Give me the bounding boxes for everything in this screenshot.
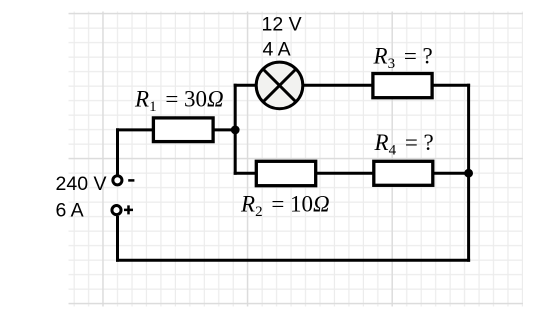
wire R4 to right rail: [433, 172, 470, 175]
resistor R2: [256, 161, 315, 185]
wire bottom return: [116, 259, 470, 262]
wire branch riser: lamp level down to R2 level: [234, 84, 237, 175]
resistor R3: [373, 74, 432, 98]
terminal negative (open circle): [113, 176, 122, 185]
junction node dot at R4 / right rail: [464, 169, 473, 178]
plus sign: [124, 205, 133, 214]
resistor R1: [153, 118, 213, 142]
terminal positive (open circle): [112, 206, 121, 215]
minus sign: [128, 179, 134, 182]
wire right rail: R3 level down to bottom wire: [467, 84, 470, 262]
wire R1 to junction: [213, 128, 237, 131]
svg-text:R2 = 10Ω: R2 = 10Ω: [240, 192, 330, 221]
svg-text:R4 = ?: R4 = ?: [374, 130, 434, 159]
wire left rail top: from top-left corner down to negative terminal: [116, 128, 119, 174]
lamp (12 V, 4 A): [256, 62, 303, 109]
svg-text:12 V: 12 V: [262, 13, 302, 35]
resistor R4: [374, 161, 433, 185]
wire left rail bottom: positive terminal down to bottom wire: [116, 216, 119, 262]
wire R3 to right rail: [432, 84, 470, 87]
svg-text:6 A: 6 A: [56, 200, 84, 222]
svg-text:4 A: 4 A: [263, 39, 291, 61]
wire lamp to R3: [303, 84, 374, 87]
wire riser to lamp: [234, 84, 257, 87]
wire R2 to R4: [316, 172, 375, 175]
wire top-left horizontal: left rail to R1: [116, 128, 155, 131]
junction node dot at R1 / branch point: [231, 125, 240, 134]
svg-text:240 V: 240 V: [56, 173, 107, 195]
wire riser to R2: [234, 172, 257, 175]
svg-text:R1 = 30Ω: R1 = 30Ω: [134, 87, 224, 116]
svg-text:R3 = ?: R3 = ?: [373, 44, 433, 72]
